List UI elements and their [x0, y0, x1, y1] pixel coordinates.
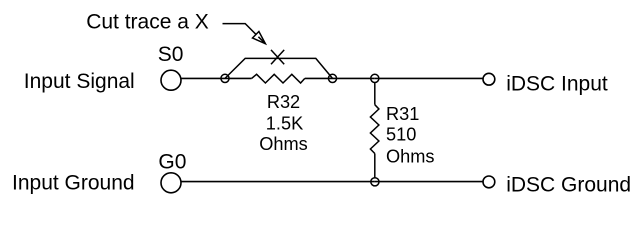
wire S0 to junction J1 — [181, 77, 225, 79]
junction J3 — [371, 74, 379, 82]
label R31 value — [386, 104, 435, 167]
svg-text:R31: R31 — [386, 104, 419, 124]
wire J4 to iDSC Ground terminal — [375, 181, 483, 183]
wire J3 to iDSC Input terminal — [375, 77, 483, 79]
svg-text:Cut trace a X: Cut trace a X — [86, 10, 209, 33]
resistor R31 — [370, 83, 379, 178]
terminal G0 — [161, 173, 181, 193]
wire R32 to junction J2 — [305, 77, 333, 79]
svg-text:1.5K: 1.5K — [266, 113, 303, 133]
terminal S0 — [161, 70, 181, 90]
terminal iDSC Input — [483, 73, 495, 85]
wire J1 to R32 — [225, 77, 252, 79]
svg-text:iDSC Input: iDSC Input — [506, 73, 608, 96]
svg-text:510: 510 — [386, 125, 416, 145]
terminal iDSC Ground — [483, 176, 495, 188]
svg-text:Ohms: Ohms — [259, 134, 308, 154]
junction J4 — [371, 178, 379, 186]
svg-text:iDSC Ground: iDSC Ground — [506, 174, 631, 197]
bypass wire over R32 — [225, 58, 333, 78]
cut mark X on bypass trace — [271, 50, 284, 64]
svg-text:R32: R32 — [267, 92, 300, 112]
svg-text:Input Ground: Input Ground — [12, 171, 135, 194]
junction J2 — [328, 74, 336, 82]
resistor R32 — [252, 74, 305, 83]
wire G0 to junction J4 — [181, 181, 375, 183]
junction J1 — [221, 74, 229, 82]
svg-text:G0: G0 — [158, 151, 186, 174]
wire J2 to J3 — [333, 77, 375, 79]
label R32 value — [259, 92, 308, 154]
leader arrow to cut mark — [223, 24, 266, 44]
svg-text:S0: S0 — [158, 43, 184, 66]
svg-text:Ohms: Ohms — [386, 147, 435, 167]
svg-text:Input Signal: Input Signal — [24, 70, 135, 93]
